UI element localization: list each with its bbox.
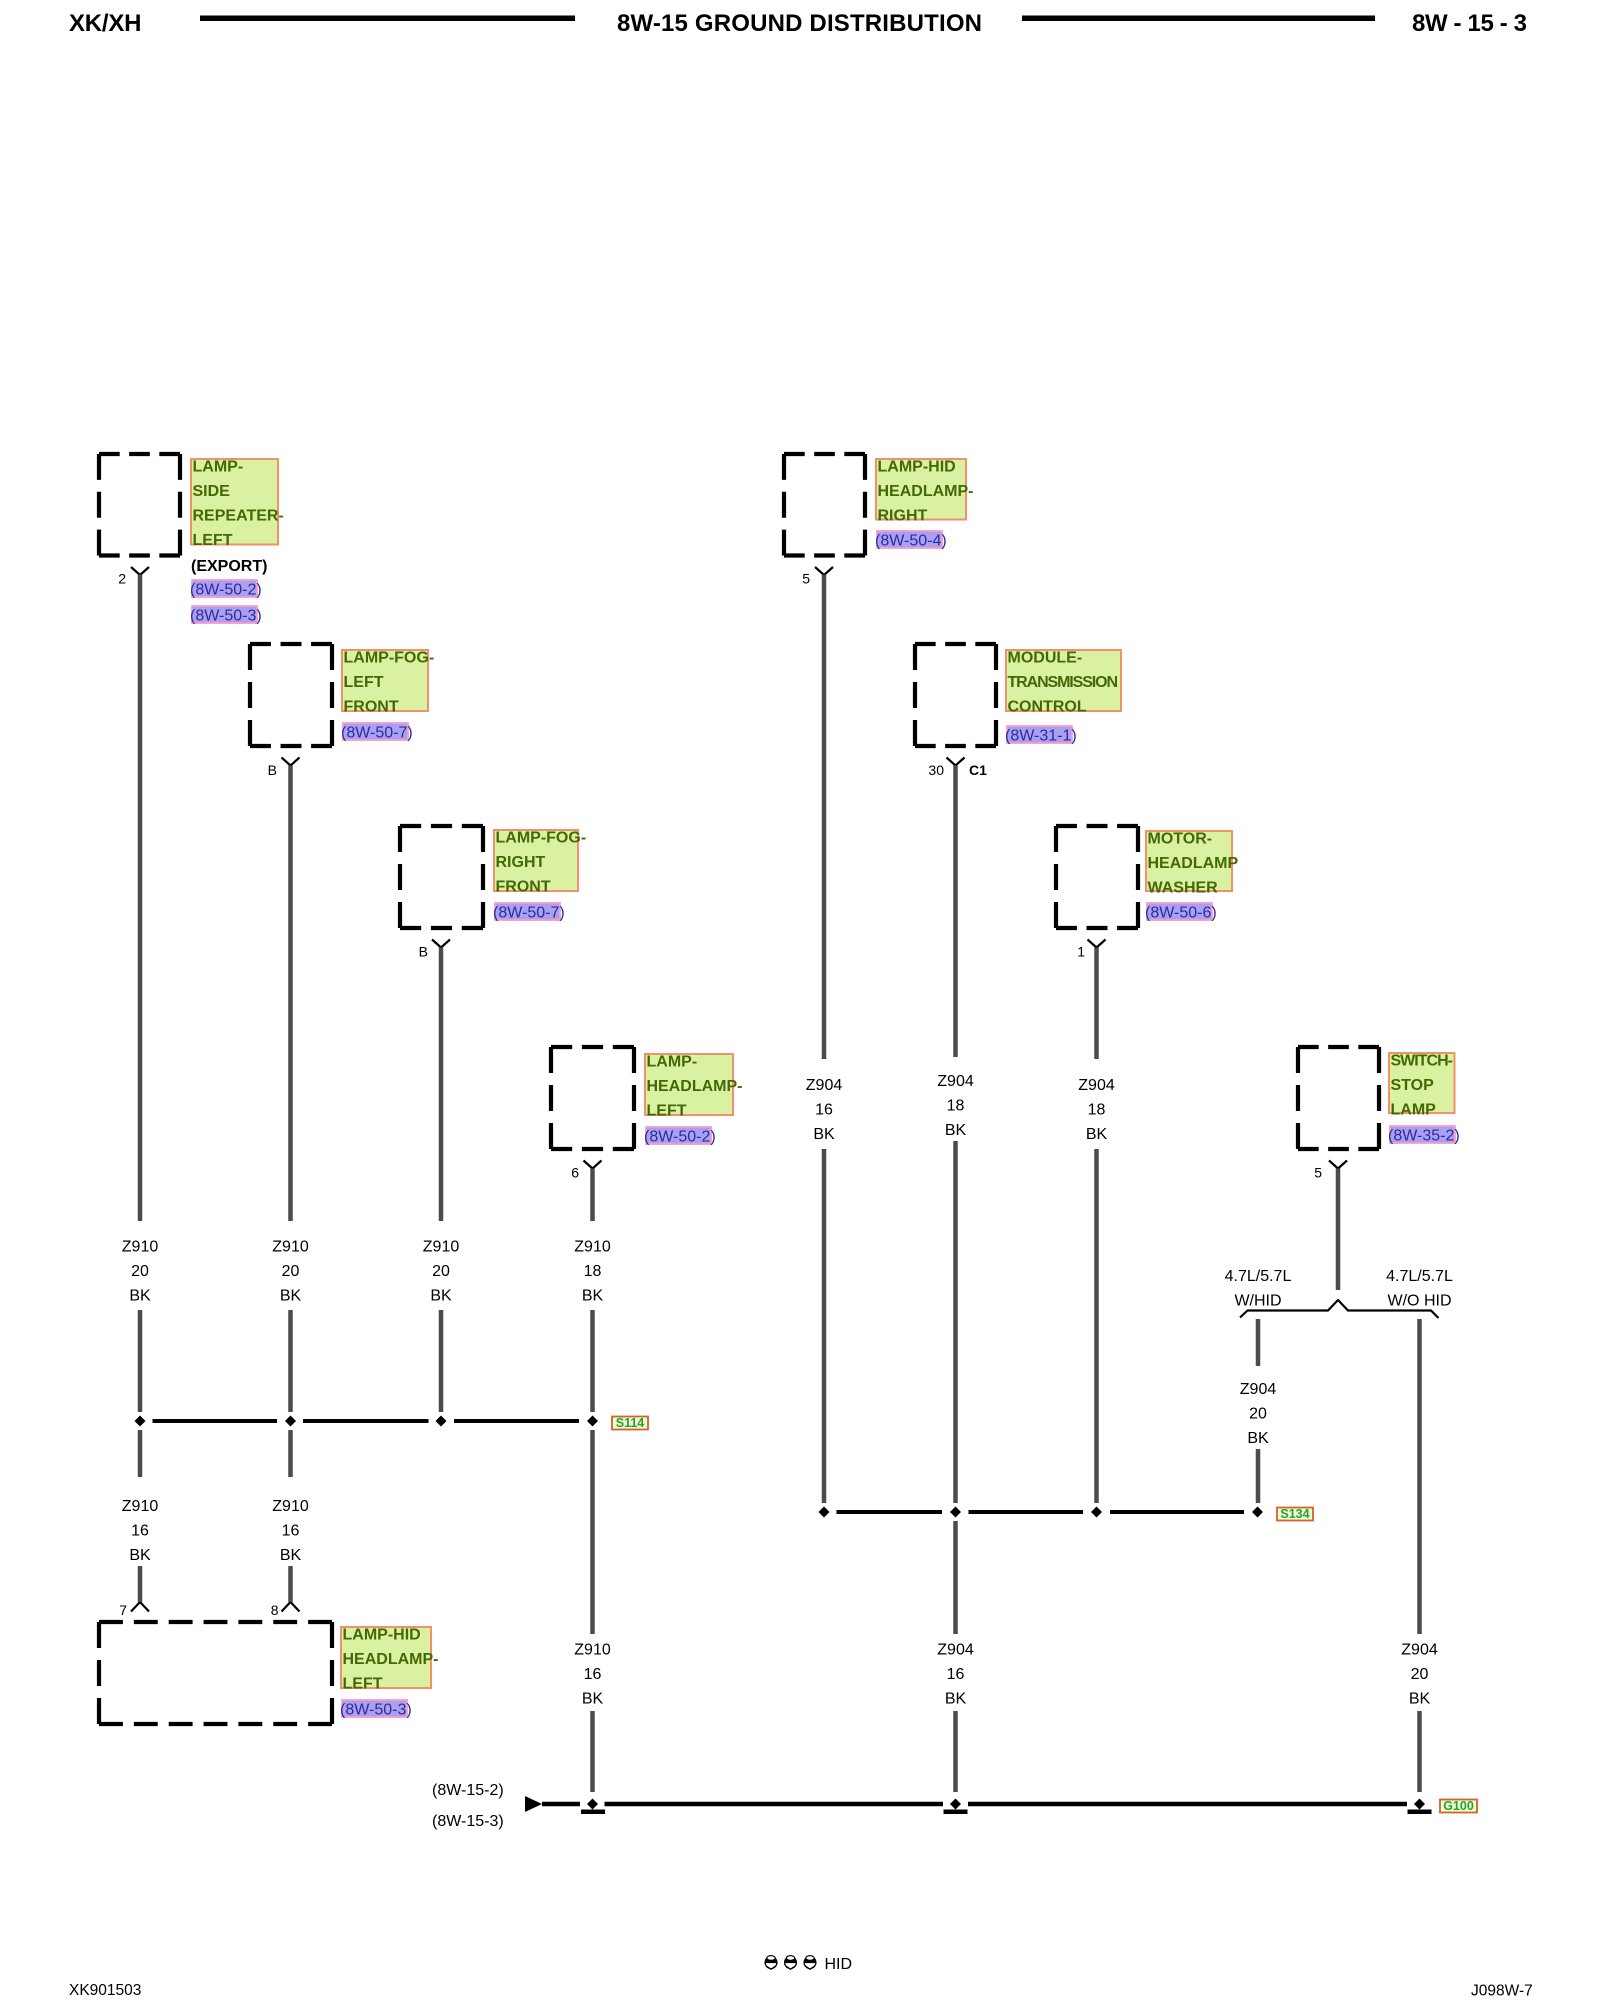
ref (8W-35-2) for stop lamp switch — [1388, 1126, 1460, 1145]
label LAMP-HID HEADLAMP-LEFT — [341, 1627, 439, 1693]
ref (8W-50-7) for fog right — [493, 903, 565, 922]
svg-text:B: B — [268, 762, 277, 778]
svg-text:6: 6 — [571, 1165, 579, 1181]
svg-text:B: B — [419, 944, 428, 960]
label SWITCH-STOP LAMP — [1389, 1053, 1455, 1119]
wire label Z904 18 BK (w6) — [937, 1073, 974, 1139]
svg-text:20: 20 — [282, 1263, 300, 1280]
wire Z904 from washer motor pin 1 (w7) — [1094, 948, 1099, 1504]
splice S114 junction w4 — [587, 1416, 598, 1427]
svg-text:XK/XH: XK/XH — [69, 10, 142, 37]
ref (8W-50-2) for side repeater — [190, 580, 262, 599]
svg-text:STOP: STOP — [1391, 1077, 1435, 1094]
pin fork, HID left pin 7 — [131, 1602, 149, 1612]
ground junction w6 — [950, 1799, 961, 1810]
svg-text:Z904: Z904 — [1078, 1077, 1115, 1094]
splice S134 bus line — [837, 1510, 1245, 1514]
wire label Z910 18 BK (w4) — [574, 1239, 611, 1305]
label LAMP-SIDE REPEATER-LEFT — [191, 459, 284, 550]
svg-text:(8W-15-2): (8W-15-2) — [432, 1782, 504, 1799]
svg-text:MODULE-: MODULE- — [1008, 650, 1083, 667]
svg-text:BK: BK — [945, 1122, 967, 1139]
splice S114 bus line — [153, 1419, 580, 1423]
splice S134 junction w8L — [1252, 1507, 1263, 1518]
svg-text:SIDE: SIDE — [193, 483, 231, 500]
splice label S134 — [1277, 1507, 1313, 1521]
wire label Z904 20 BK (w8L) — [1240, 1381, 1277, 1447]
svg-text:BK: BK — [813, 1126, 835, 1143]
svg-text:LAMP-: LAMP- — [193, 459, 244, 476]
svg-text:18: 18 — [947, 1098, 965, 1115]
wire label Z910 16 BK (w1 lower) — [122, 1498, 159, 1564]
svg-text:8: 8 — [271, 1602, 279, 1618]
svg-text:TRANSMISSION: TRANSMISSION — [1008, 674, 1119, 691]
svg-text:16: 16 — [947, 1666, 965, 1683]
svg-text:LEFT: LEFT — [344, 674, 384, 691]
svg-text:(8W-15-3): (8W-15-3) — [432, 1813, 504, 1830]
legend HID bulb symbol 1 — [765, 1956, 777, 1970]
header rule right — [1022, 16, 1375, 22]
svg-text:4.7L/5.7L: 4.7L/5.7L — [1225, 1268, 1292, 1285]
connector box LAMP-SIDE REPEATER-LEFT — [99, 454, 180, 556]
connector box LAMP-FOG-RIGHT FRONT — [400, 826, 483, 928]
svg-text:WASHER: WASHER — [1148, 880, 1219, 897]
wire Z910 from side repeater pin 2 (w1) — [138, 575, 143, 1603]
svg-text:4.7L/5.7L: 4.7L/5.7L — [1386, 1268, 1453, 1285]
svg-text:Z910: Z910 — [272, 1498, 309, 1515]
label MOTOR-HEADLAMP WASHER — [1146, 831, 1238, 897]
label LAMP-HEADLAMP-LEFT — [645, 1054, 743, 1120]
svg-text:FRONT: FRONT — [344, 699, 399, 716]
connector box LAMP-HEADLAMP-LEFT — [551, 1047, 634, 1149]
connector box LAMP-HID HEADLAMP-LEFT — [99, 1622, 332, 1724]
svg-text:S134: S134 — [1280, 1507, 1309, 1521]
splice label S114 — [612, 1416, 648, 1430]
wire label Z910 16 BK (w2 lower) — [272, 1498, 309, 1564]
svg-text:LAMP-HID: LAMP-HID — [343, 1627, 421, 1644]
svg-text:LEFT: LEFT — [343, 1676, 383, 1693]
svg-text:Z904: Z904 — [937, 1073, 974, 1090]
legend HID bulb symbol 3 — [804, 1956, 816, 1970]
svg-text:Z904: Z904 — [1401, 1642, 1438, 1659]
splice S114 junction w1 — [135, 1416, 146, 1427]
pin fork, HID right pin 5 — [815, 567, 833, 575]
ref (8W-50-6) for washer motor — [1145, 903, 1217, 922]
wire label Z904 20 BK (w8R lower) — [1401, 1642, 1438, 1708]
svg-text:BK: BK — [945, 1691, 967, 1708]
svg-text:(8W-50-4): (8W-50-4) — [875, 533, 947, 550]
svg-text:(8W-50-3): (8W-50-3) — [190, 608, 262, 625]
svg-text:5: 5 — [802, 571, 810, 587]
ground label G100 — [1440, 1799, 1477, 1813]
wire label Z910 20 BK (w1) — [122, 1239, 159, 1305]
connector box LAMP-FOG-LEFT FRONT — [250, 644, 332, 746]
svg-text:MOTOR-: MOTOR- — [1148, 831, 1213, 848]
label LAMP-FOG-LEFT FRONT — [342, 650, 434, 716]
ref (8W-31-1) for TCM — [1005, 726, 1077, 745]
svg-text:18: 18 — [1088, 1102, 1106, 1119]
wire label Z910 20 BK (w3) — [423, 1239, 460, 1305]
svg-text:16: 16 — [131, 1523, 149, 1540]
svg-text:Z910: Z910 — [574, 1239, 611, 1256]
splice S114 junction w2 — [285, 1416, 296, 1427]
svg-text:RIGHT: RIGHT — [496, 854, 546, 871]
ground bus line — [542, 1802, 1407, 1807]
connector box LAMP-HID HEADLAMP-RIGHT — [784, 454, 865, 556]
connector box SWITCH-STOP LAMP — [1298, 1047, 1379, 1149]
wire label Z904 18 BK (w7) — [1078, 1077, 1115, 1143]
svg-text:5: 5 — [1314, 1165, 1322, 1181]
svg-text:(EXPORT): (EXPORT) — [191, 558, 267, 575]
svg-text:20: 20 — [131, 1263, 149, 1280]
ref (8W-50-2) for headlamp left — [644, 1127, 716, 1146]
svg-text:20: 20 — [432, 1263, 450, 1280]
svg-text:2: 2 — [118, 571, 126, 587]
svg-text:HEADLAMP-: HEADLAMP- — [343, 1651, 439, 1668]
svg-text:Z910: Z910 — [272, 1239, 309, 1256]
pin fork, stop lamp switch pin 5 — [1329, 1161, 1347, 1169]
legend HID bulb symbol 2 — [784, 1956, 796, 1970]
ref (8W-50-3) for HID left — [340, 1700, 412, 1719]
wire Z904 W/HID branch (w8L) — [1256, 1319, 1261, 1503]
connector box MOTOR-HEADLAMP WASHER — [1056, 826, 1138, 928]
svg-text:Z904: Z904 — [937, 1642, 974, 1659]
option text 4.7L/5.7L W/O HID — [1386, 1268, 1453, 1310]
ground junction w4 — [587, 1799, 598, 1810]
label MODULE-TRANSMISSION CONTROL — [1006, 650, 1121, 716]
pin fork, washer motor pin 1 — [1088, 940, 1106, 948]
wire label Z904 16 BK (w5) — [806, 1077, 843, 1143]
wire Z910 from headlamp left pin 6 (w4) — [590, 1169, 595, 1793]
svg-text:BK: BK — [129, 1547, 151, 1564]
label LAMP-HID HEADLAMP-RIGHT — [876, 459, 974, 525]
svg-text:C1: C1 — [969, 762, 987, 778]
svg-text:HEADLAMP-: HEADLAMP- — [878, 483, 974, 500]
svg-text:BK: BK — [582, 1288, 604, 1305]
svg-text:CONTROL: CONTROL — [1008, 699, 1087, 716]
header rule left — [200, 16, 575, 22]
svg-text:LAMP-FOG-: LAMP-FOG- — [496, 830, 587, 847]
svg-text:16: 16 — [584, 1666, 602, 1683]
pin fork, fog left pin B — [282, 758, 300, 766]
wire Z910 from fog lamp left pin B (w2) — [288, 766, 293, 1603]
wire Z904 from stop lamp switch pin 5 (w8) — [1336, 1169, 1341, 1291]
svg-text:(8W-50-7): (8W-50-7) — [493, 905, 565, 922]
svg-text:BK: BK — [582, 1691, 604, 1708]
ref (8W-50-3) for side repeater — [190, 606, 262, 625]
svg-text:REPEATER-: REPEATER- — [193, 508, 284, 525]
wire Z910 from fog lamp right pin B (w3) — [439, 948, 444, 1413]
svg-text:16: 16 — [282, 1523, 300, 1540]
svg-text:LAMP-HID: LAMP-HID — [878, 459, 956, 476]
svg-text:8W - 15 - 3: 8W - 15 - 3 — [1412, 10, 1527, 37]
svg-text:BK: BK — [280, 1288, 302, 1305]
svg-text:BK: BK — [1409, 1691, 1431, 1708]
svg-text:Z904: Z904 — [1240, 1381, 1277, 1398]
svg-text:Z904: Z904 — [806, 1077, 843, 1094]
wire label Z910 20 BK (w2) — [272, 1239, 309, 1305]
label LAMP-FOG-RIGHT FRONT — [494, 830, 586, 896]
pin fork, fog right pin B — [432, 940, 450, 948]
svg-text:Z910: Z910 — [122, 1498, 159, 1515]
splice S134 junction w7 — [1091, 1507, 1102, 1518]
svg-text:BK: BK — [280, 1547, 302, 1564]
svg-text:LAMP-: LAMP- — [647, 1054, 698, 1071]
svg-text:BK: BK — [430, 1288, 452, 1305]
svg-text:7: 7 — [119, 1602, 127, 1618]
wire label Z904 16 BK (w6 lower) — [937, 1642, 974, 1708]
svg-text:S114: S114 — [616, 1416, 645, 1430]
svg-text:8W-15 GROUND DISTRIBUTION: 8W-15 GROUND DISTRIBUTION — [617, 10, 982, 37]
ref (8W-50-4) for HID right — [875, 531, 947, 550]
option text 4.7L/5.7L W/HID — [1225, 1268, 1292, 1310]
pin fork, HID left pin 8 — [282, 1602, 300, 1612]
wire Z904 W/O HID branch (w8R) — [1417, 1319, 1422, 1792]
ref (8W-50-7) for fog left — [341, 723, 413, 742]
svg-text:LEFT: LEFT — [193, 532, 233, 549]
svg-text:(8W-50-6): (8W-50-6) — [1145, 905, 1217, 922]
svg-text:18: 18 — [584, 1263, 602, 1280]
svg-text:20: 20 — [1411, 1666, 1429, 1683]
svg-text:(8W-50-2): (8W-50-2) — [190, 582, 262, 599]
svg-text:LAMP: LAMP — [1391, 1102, 1437, 1119]
svg-text:(8W-35-2): (8W-35-2) — [1388, 1128, 1460, 1145]
connector box MODULE-TRANSMISSION CONTROL — [915, 644, 996, 746]
svg-text:W/O HID: W/O HID — [1388, 1293, 1452, 1310]
svg-text:HID: HID — [825, 1956, 853, 1973]
splice S134 junction w6 — [950, 1507, 961, 1518]
svg-text:BK: BK — [129, 1288, 151, 1305]
svg-text:LAMP-FOG-: LAMP-FOG- — [344, 650, 435, 667]
svg-text:HEADLAMP-: HEADLAMP- — [647, 1078, 743, 1095]
svg-text:HEADLAMP: HEADLAMP — [1148, 855, 1239, 872]
svg-text:W/HID: W/HID — [1234, 1293, 1281, 1310]
svg-text:(8W-50-2): (8W-50-2) — [644, 1129, 716, 1146]
splice S134 junction w5 — [819, 1507, 830, 1518]
svg-text:(8W-31-1): (8W-31-1) — [1005, 728, 1077, 745]
svg-text:Z910: Z910 — [423, 1239, 460, 1256]
wire label Z910 16 BK (w4 lower) — [574, 1642, 611, 1708]
pin fork, lamp-side repeater pin 2 — [131, 567, 149, 575]
splice S114 junction w3 — [436, 1416, 447, 1427]
svg-text:BK: BK — [1086, 1126, 1108, 1143]
svg-text:(8W-50-7): (8W-50-7) — [341, 725, 413, 742]
pin fork, TCM pin 30 — [947, 758, 965, 766]
svg-text:30: 30 — [928, 762, 944, 778]
svg-text:G100: G100 — [1443, 1799, 1474, 1813]
ground bus arrow — [525, 1796, 542, 1812]
svg-text:20: 20 — [1249, 1406, 1267, 1423]
ground junction w8R — [1414, 1799, 1425, 1810]
svg-text:XK901503: XK901503 — [69, 1982, 141, 1999]
svg-text:RIGHT: RIGHT — [878, 508, 928, 525]
svg-text:Z910: Z910 — [122, 1239, 159, 1256]
wire Z904 from HID right pin 5 (w5) — [822, 575, 827, 1504]
svg-text:1: 1 — [1077, 944, 1085, 960]
pin fork, headlamp left pin 6 — [584, 1161, 602, 1169]
svg-text:FRONT: FRONT — [496, 879, 551, 896]
svg-text:(8W-50-3): (8W-50-3) — [340, 1702, 412, 1719]
option split brace — [1240, 1300, 1439, 1318]
svg-text:BK: BK — [1247, 1430, 1269, 1447]
svg-text:16: 16 — [815, 1102, 833, 1119]
svg-text:J098W-7: J098W-7 — [1471, 1983, 1533, 2000]
wire Z904 from TCM pin 30 (w6) — [953, 766, 958, 1793]
svg-text:Z910: Z910 — [574, 1642, 611, 1659]
svg-text:LEFT: LEFT — [647, 1103, 687, 1120]
svg-text:SWITCH-: SWITCH- — [1391, 1053, 1454, 1070]
